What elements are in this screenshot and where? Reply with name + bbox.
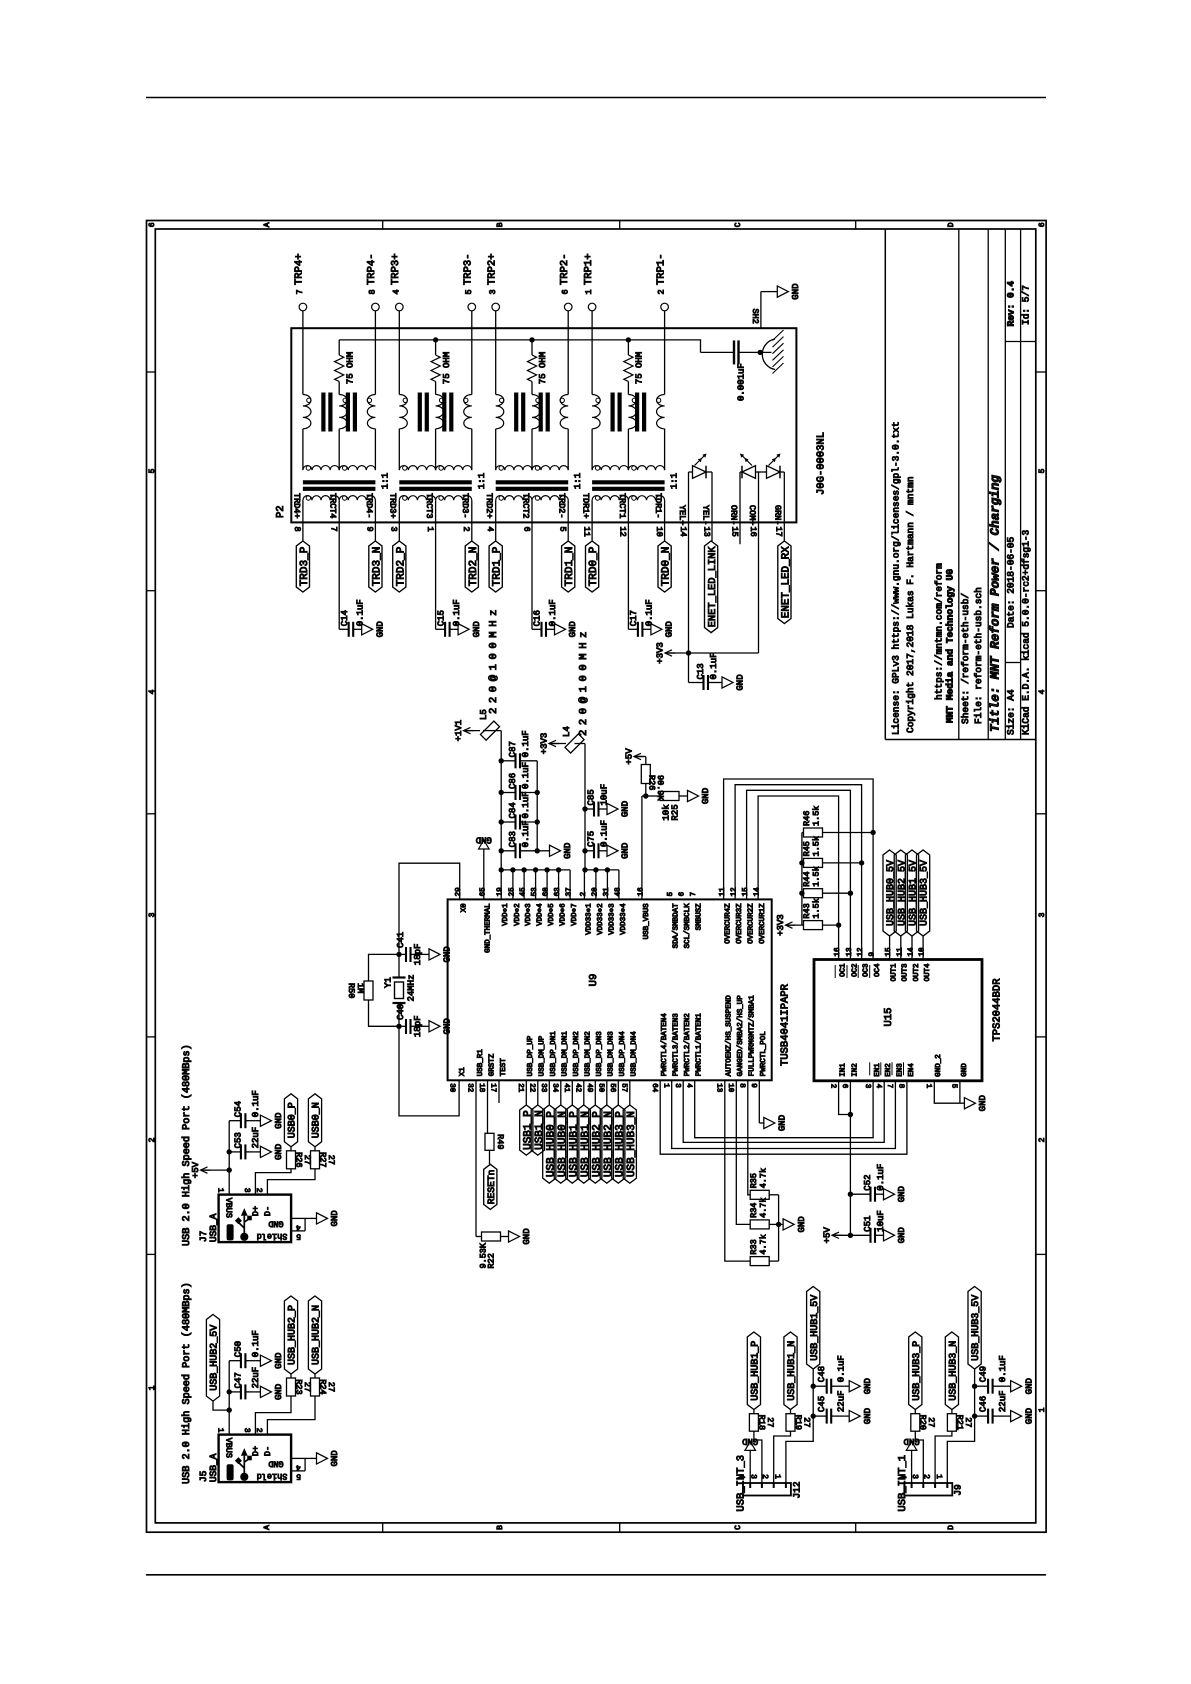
svg-text:75 OHM: 75 OHM bbox=[538, 352, 548, 384]
svg-text:GND: GND bbox=[1024, 1378, 1034, 1394]
P2 pin 16 COM+ bbox=[758, 472, 760, 541]
wire center section bbox=[495, 429, 497, 470]
svg-text:GND: GND bbox=[960, 1063, 969, 1077]
J9 pin 3 bbox=[922, 1483, 924, 1488]
junction bbox=[227, 1149, 232, 1154]
svg-text:0.1uF: 0.1uF bbox=[998, 1355, 1008, 1382]
svg-text:VDD●2: VDD●2 bbox=[513, 903, 522, 926]
svg-text:6: 6 bbox=[840, 1084, 849, 1089]
svg-text:27: 27 bbox=[926, 1417, 936, 1427]
svg-text:U15: U15 bbox=[883, 1008, 895, 1027]
resistor R27 27 bbox=[311, 1151, 320, 1169]
svg-text:4.7k: 4.7k bbox=[759, 1234, 769, 1254]
svg-text:1: 1 bbox=[924, 1084, 932, 1089]
J12 pin 1 bbox=[785, 1483, 787, 1488]
wire YEL+ / COM+ to 3V3 bbox=[688, 541, 690, 683]
ground GND (C52) bbox=[879, 1193, 884, 1195]
svg-text:R33: R33 bbox=[749, 1239, 759, 1254]
wire D- to R27 bbox=[267, 1169, 315, 1195]
svg-text:0.1uF: 0.1uF bbox=[251, 1330, 261, 1357]
svg-text:Size: A4: Size: A4 bbox=[1006, 689, 1017, 735]
svg-text:Sheet: /reform-eth-usb/: Sheet: /reform-eth-usb/ bbox=[960, 593, 971, 724]
svg-text:60: 60 bbox=[542, 887, 551, 897]
svg-text:IN1: IN1 bbox=[840, 1063, 848, 1077]
svg-text:+3V3: +3V3 bbox=[540, 733, 550, 755]
capacitor C75 bbox=[582, 848, 587, 853]
svg-text:GND: GND bbox=[568, 621, 578, 637]
wire pin2 jog bbox=[774, 1431, 791, 1483]
svg-text:VDD33●3: VDD33●3 bbox=[607, 903, 616, 935]
svg-text:C50: C50 bbox=[234, 1341, 244, 1357]
junction bbox=[870, 830, 875, 835]
wire R43-R46 common to +3V3 bbox=[801, 833, 803, 926]
svg-text:USB_HUB2_P: USB_HUB2_P bbox=[591, 1111, 603, 1177]
svg-text:GND_THERMAL: GND_THERMAL bbox=[484, 903, 493, 953]
svg-text:50: 50 bbox=[597, 1083, 606, 1093]
wire pin to label bbox=[537, 1080, 539, 1105]
svg-text:GND: GND bbox=[621, 801, 631, 817]
wire bbox=[911, 936, 913, 960]
svg-text:USB_HUB3_P: USB_HUB3_P bbox=[912, 1341, 923, 1401]
wire VDD pin bbox=[523, 870, 525, 900]
EN1-4 wires U15 to U9 PWRCTL bbox=[695, 1080, 873, 1137]
wire IN2 down bbox=[849, 1081, 851, 1236]
resistor R26 90.9K bbox=[641, 765, 650, 784]
svg-text:USB_HUB1_5V: USB_HUB1_5V bbox=[810, 1295, 821, 1361]
wire VDD33 pin bbox=[606, 870, 608, 900]
svg-text:C13: C13 bbox=[696, 663, 706, 679]
svg-text:SH2: SH2 bbox=[750, 309, 760, 324]
power +3V3 (R43) bbox=[786, 924, 796, 926]
svg-text:4.7k: 4.7k bbox=[759, 1197, 769, 1217]
svg-text:0.1uF: 0.1uF bbox=[452, 599, 462, 626]
wire pin to label bbox=[525, 1080, 527, 1105]
U9 pin17 TEST stub bbox=[498, 1080, 500, 1103]
svg-text:75 OHM: 75 OHM bbox=[345, 352, 355, 384]
ground GND (J7) bbox=[312, 1217, 317, 1219]
svg-text:USB_A: USB_A bbox=[208, 1453, 219, 1482]
svg-text:42: 42 bbox=[574, 1083, 583, 1092]
hex net label TRD0_P bbox=[586, 541, 599, 592]
svg-text:TRD1_N: TRD1_N bbox=[564, 547, 576, 587]
svg-text:MNT Media and Technology UG: MNT Media and Technology UG bbox=[945, 569, 956, 723]
svg-text:22uF: 22uF bbox=[251, 1367, 261, 1389]
svg-text:VDD33●1: VDD33●1 bbox=[584, 903, 593, 935]
svg-text:4: 4 bbox=[296, 1223, 301, 1232]
ground GND (C51) bbox=[879, 1234, 884, 1236]
J12 pin 4 bbox=[749, 1483, 751, 1488]
svg-text:4: 4 bbox=[391, 289, 401, 294]
svg-text:GND: GND bbox=[897, 1186, 907, 1202]
svg-text:4: 4 bbox=[737, 1474, 746, 1479]
svg-text:24MHz: 24MHz bbox=[407, 974, 417, 1001]
svg-text:R46: R46 bbox=[802, 811, 812, 826]
svg-text:GND: GND bbox=[863, 1408, 873, 1424]
svg-text:41: 41 bbox=[562, 1083, 570, 1093]
svg-text:USB_HUB1_P: USB_HUB1_P bbox=[568, 1111, 580, 1177]
svg-text:USB1_P: USB1_P bbox=[522, 1110, 534, 1150]
J7 pin 5 Shield bbox=[291, 1230, 305, 1232]
wire bbox=[290, 1374, 292, 1378]
ground GND (J12 pin4) bbox=[749, 1450, 751, 1454]
ground GND (R25) bbox=[683, 795, 688, 797]
wire R33-35 common gnd bbox=[778, 1195, 780, 1261]
wire U15 GND pins bbox=[934, 1081, 960, 1103]
hex net label TRD2_P bbox=[393, 541, 406, 592]
junction bbox=[643, 793, 648, 798]
svg-text:1.5k: 1.5k bbox=[812, 836, 822, 856]
hex net label USB_HUB3_5V bbox=[968, 1287, 981, 1370]
svg-text:USB_DM_DN1: USB_DM_DN1 bbox=[561, 1031, 570, 1077]
svg-text:U9: U9 bbox=[588, 974, 600, 987]
hex net label USB_HUB3_P bbox=[612, 1105, 625, 1183]
svg-text:GND: GND bbox=[522, 1228, 532, 1244]
svg-text:OC1: OC1 bbox=[839, 963, 848, 977]
capacitor C52 bbox=[850, 1193, 870, 1195]
svg-text:GND: GND bbox=[701, 788, 711, 804]
svg-text:C87: C87 bbox=[508, 741, 518, 757]
wires to bottom pins bbox=[302, 500, 304, 541]
svg-text:1:1: 1:1 bbox=[380, 473, 390, 489]
hex net label USB_HUB0_5V bbox=[883, 850, 896, 936]
svg-text:5: 5 bbox=[950, 1084, 958, 1089]
wire VDD pin bbox=[546, 870, 548, 900]
svg-text:TRP4+: TRP4+ bbox=[294, 253, 306, 285]
svg-text:1: 1 bbox=[425, 527, 435, 532]
transformer T4 line-side winding lower bbox=[303, 496, 339, 501]
svg-text:7: 7 bbox=[885, 1084, 893, 1089]
wire VDD pin bbox=[535, 870, 537, 900]
resistor R43 1.5k bbox=[804, 921, 823, 930]
resistor R20 27 bbox=[911, 1414, 920, 1432]
svg-text:Shield: Shield bbox=[257, 1471, 288, 1481]
svg-text:GND: GND bbox=[621, 843, 631, 859]
capacitor C14 on center tap bbox=[338, 541, 340, 629]
svg-text:1M: 1M bbox=[355, 983, 365, 993]
ground GND (SH2) bbox=[773, 291, 778, 293]
junction bbox=[582, 867, 587, 872]
svg-text:R45: R45 bbox=[802, 841, 812, 856]
svg-text:YEL-: YEL- bbox=[700, 505, 710, 525]
resistor R44 1.5k bbox=[804, 889, 823, 898]
wire X0 to crystal bbox=[399, 863, 460, 954]
svg-text:GND: GND bbox=[476, 835, 492, 845]
ground GND (C45) bbox=[845, 1415, 850, 1417]
svg-text:VBUS: VBUS bbox=[223, 1438, 233, 1458]
IC U9 TUSB4041IPAPR box bbox=[448, 899, 772, 1080]
svg-text:J9: J9 bbox=[953, 1484, 964, 1496]
svg-text:OVERCUR4Z: OVERCUR4Z bbox=[724, 903, 733, 944]
resistor R33 4.7k bbox=[725, 1080, 750, 1261]
svg-text:OUT2: OUT2 bbox=[912, 964, 921, 982]
junction bbox=[499, 867, 504, 872]
svg-text:25: 25 bbox=[507, 887, 516, 897]
capacitor C85 bbox=[582, 806, 587, 811]
svg-text:22uF: 22uF bbox=[251, 1127, 261, 1149]
svg-text:USB_HUB0_N: USB_HUB0_N bbox=[557, 1111, 569, 1177]
J5 pin 4 GND bbox=[291, 1457, 305, 1459]
svg-text:R49: R49 bbox=[495, 1134, 505, 1149]
wires to bottom pins bbox=[591, 500, 593, 541]
ground GND (C48) bbox=[845, 1385, 850, 1387]
capacitor 0.001uF bbox=[701, 351, 735, 353]
svg-text:IN2: IN2 bbox=[850, 1063, 859, 1077]
svg-text:GND: GND bbox=[897, 1227, 907, 1243]
svg-text:C45: C45 bbox=[817, 1396, 827, 1412]
svg-text:C16: C16 bbox=[533, 610, 543, 626]
svg-text:0.1uF: 0.1uF bbox=[600, 820, 610, 847]
svg-text:27: 27 bbox=[801, 1417, 811, 1427]
svg-text:0.001uF: 0.001uF bbox=[737, 363, 747, 401]
wire crystal to X1 bbox=[399, 1026, 459, 1116]
P2 channel 2 TRP pin 3 bbox=[492, 303, 500, 311]
capacitor C87 bbox=[501, 760, 515, 762]
svg-text:D: D bbox=[947, 1525, 956, 1530]
svg-text:18: 18 bbox=[477, 1083, 486, 1092]
svg-text:PWRCTL2/BATEN2: PWRCTL2/BATEN2 bbox=[683, 1013, 692, 1076]
svg-text:49: 49 bbox=[585, 1083, 594, 1092]
svg-text:USB_HUB2_5V: USB_HUB2_5V bbox=[210, 1325, 221, 1391]
capacitor C86 bbox=[501, 792, 515, 794]
transformer T4 line-side winding upper bbox=[303, 466, 339, 471]
ground GND (C47) bbox=[256, 1391, 261, 1393]
transformer T3 line-side winding upper bbox=[399, 466, 435, 471]
svg-text:10uF: 10uF bbox=[876, 1210, 886, 1232]
junction bbox=[529, 337, 534, 342]
junction bbox=[848, 891, 853, 896]
svg-text:GND: GND bbox=[903, 1436, 919, 1446]
svg-text:1: 1 bbox=[1038, 1407, 1047, 1412]
svg-text:J12: J12 bbox=[791, 1481, 802, 1498]
wire bbox=[753, 1410, 755, 1414]
svg-text:1:1: 1:1 bbox=[670, 473, 680, 489]
svg-text:22uF: 22uF bbox=[836, 1390, 846, 1412]
capacitor C49 0.1uF bbox=[975, 1385, 989, 1387]
svg-text:7: 7 bbox=[690, 892, 698, 897]
power +3V3 (L4) bbox=[549, 743, 559, 745]
capacitor C45 22uF bbox=[813, 1415, 827, 1417]
svg-text:53: 53 bbox=[530, 887, 539, 897]
svg-text:0.1uF: 0.1uF bbox=[548, 599, 558, 626]
svg-text:1: 1 bbox=[216, 1428, 225, 1433]
svg-text:USB_DP_DN4: USB_DP_DN4 bbox=[618, 1031, 627, 1077]
svg-text:2: 2 bbox=[1038, 1137, 1047, 1142]
wire cap rail to GND bbox=[536, 761, 538, 851]
wire USB_VBUS bbox=[641, 796, 643, 899]
svg-text:J0G-0003NL: J0G-0003NL bbox=[815, 432, 827, 495]
svg-text:10uF: 10uF bbox=[600, 784, 610, 806]
junction bbox=[535, 848, 540, 853]
border zone dividers left/right bbox=[147, 371, 156, 373]
hex net label USB_HUB3_N bbox=[945, 1332, 958, 1410]
VDD33 bus wire bbox=[585, 869, 619, 871]
ground GND (C40) bbox=[425, 1025, 430, 1027]
svg-text:TRCT4: TRCT4 bbox=[328, 493, 338, 519]
ferrite bead L5 bbox=[464, 730, 481, 732]
svg-text:17: 17 bbox=[489, 1083, 497, 1092]
svg-text:USB_DP_DN2: USB_DP_DN2 bbox=[572, 1031, 581, 1076]
svg-text:C84: C84 bbox=[508, 802, 518, 818]
transformer T4 core bars horizontal bbox=[303, 480, 376, 484]
wire D+ to R26 bbox=[255, 1169, 291, 1195]
svg-text:C53: C53 bbox=[234, 1132, 244, 1148]
capacitor C84 bbox=[501, 821, 515, 823]
svg-text:TRP4-: TRP4- bbox=[366, 253, 378, 285]
connector J12 box bbox=[743, 1483, 791, 1496]
J9 pin 2 bbox=[934, 1483, 936, 1488]
svg-text:R23: R23 bbox=[293, 1379, 303, 1394]
svg-text:22uF: 22uF bbox=[998, 1390, 1008, 1412]
svg-text:USB_DM_DN4: USB_DM_DN4 bbox=[630, 1031, 639, 1077]
svg-text:3: 3 bbox=[242, 1188, 251, 1193]
wire bbox=[823, 924, 839, 926]
75 OHM resistor ch3 bbox=[435, 340, 437, 355]
wire pin to label bbox=[594, 1080, 596, 1105]
junction bbox=[535, 819, 540, 824]
transformer T3 core bars bbox=[418, 393, 422, 432]
hex net label TRD1_P bbox=[489, 541, 502, 592]
svg-text:GND: GND bbox=[330, 1450, 340, 1466]
svg-text:GND: GND bbox=[443, 946, 453, 962]
svg-text:64: 64 bbox=[650, 1083, 659, 1093]
svg-text:R22: R22 bbox=[487, 1253, 497, 1268]
title block outline bbox=[884, 229, 886, 740]
svg-text:TUSB4041IPAPR: TUSB4041IPAPR bbox=[779, 983, 791, 1066]
svg-text:Rev: 0.4: Rev: 0.4 bbox=[1006, 281, 1017, 327]
capacitor C16 on center tap bbox=[531, 541, 533, 629]
svg-text:3: 3 bbox=[488, 289, 498, 294]
ground GND_THERMAL bbox=[483, 853, 485, 899]
svg-text:D-: D- bbox=[263, 1206, 273, 1216]
wire bbox=[914, 1410, 916, 1414]
hex net label USB_HUB3_N bbox=[623, 1105, 636, 1183]
svg-text:5: 5 bbox=[148, 468, 157, 473]
svg-text:C: C bbox=[734, 222, 743, 227]
svg-text:1:1: 1:1 bbox=[573, 473, 583, 489]
svg-text:+5V: +5V bbox=[823, 1227, 833, 1244]
ground GND (C49) bbox=[1006, 1385, 1011, 1387]
svg-text:+3V3: +3V3 bbox=[776, 914, 786, 936]
svg-text:TRD3_N: TRD3_N bbox=[371, 547, 383, 587]
svg-text:10: 10 bbox=[918, 947, 927, 957]
junction bbox=[776, 1222, 781, 1227]
chassis ground symbol bbox=[760, 351, 771, 353]
svg-text:R34: R34 bbox=[749, 1203, 759, 1218]
hex net label TRD2_N bbox=[465, 541, 478, 592]
J7 pin 4 GND bbox=[291, 1217, 305, 1219]
svg-text:USB1_N: USB1_N bbox=[534, 1110, 546, 1150]
transformer T1 device-side windings bbox=[592, 395, 600, 429]
svg-text:USB_VBUS: USB_VBUS bbox=[642, 903, 651, 940]
svg-text:OVERCUR2Z: OVERCUR2Z bbox=[747, 903, 756, 944]
svg-text:4.7k: 4.7k bbox=[759, 1168, 769, 1188]
wire shield join bbox=[304, 1218, 306, 1231]
P2 channel 3 TRP pin 5 bbox=[468, 303, 476, 311]
svg-text:GND: GND bbox=[742, 1436, 758, 1446]
svg-text:GND: GND bbox=[797, 1216, 807, 1232]
svg-text:+1V1: +1V1 bbox=[454, 720, 464, 742]
wire bbox=[790, 1410, 792, 1414]
wire pin1 to 5V rail bbox=[786, 1369, 813, 1483]
svg-text:TRD1_P: TRD1_P bbox=[492, 546, 504, 586]
svg-text:27: 27 bbox=[326, 1382, 336, 1392]
junction bbox=[396, 952, 401, 957]
svg-text:VDD●5: VDD●5 bbox=[548, 903, 556, 926]
svg-text:6: 6 bbox=[677, 891, 686, 896]
svg-text:ENET_LED_LINK: ENET_LED_LINK bbox=[707, 546, 719, 628]
svg-text:VDD●4: VDD●4 bbox=[537, 903, 545, 926]
junction bbox=[535, 790, 540, 795]
junction bbox=[972, 1384, 977, 1389]
wire PWRCTL_POL to GND bbox=[758, 1080, 760, 1123]
junction bbox=[972, 1413, 977, 1418]
hex net label USB_HUB2_5V bbox=[206, 1315, 219, 1402]
svg-text:29: 29 bbox=[454, 887, 463, 896]
svg-text:9: 9 bbox=[749, 1083, 758, 1088]
svg-text:13: 13 bbox=[701, 527, 711, 537]
svg-text:TRD2_N: TRD2_N bbox=[468, 547, 480, 587]
svg-text:13: 13 bbox=[715, 1083, 724, 1093]
svg-text:USB_DM_DN3: USB_DM_DN3 bbox=[607, 1031, 616, 1077]
svg-text:0.1uF: 0.1uF bbox=[876, 1164, 886, 1191]
svg-text:C52: C52 bbox=[863, 1174, 873, 1190]
hex net label USB0_P bbox=[284, 1094, 297, 1147]
svg-text:OC3: OC3 bbox=[862, 963, 871, 977]
resistor R35 4.7k bbox=[748, 1080, 750, 1195]
ground GND (J5) bbox=[312, 1457, 317, 1459]
svg-text:GND: GND bbox=[563, 843, 573, 859]
svg-text:USB_HUB3_5V: USB_HUB3_5V bbox=[971, 1295, 982, 1361]
junction bbox=[521, 867, 526, 872]
wire bbox=[706, 471, 712, 473]
svg-text:TRD3_P: TRD3_P bbox=[299, 546, 311, 586]
resistor R45 1.5k bbox=[804, 858, 823, 867]
svg-text:USB_HUB2_N: USB_HUB2_N bbox=[312, 1305, 323, 1365]
svg-text:OUT1: OUT1 bbox=[890, 963, 899, 982]
wire VDD pin bbox=[569, 870, 571, 900]
ground GND (J9 pin4) bbox=[911, 1450, 913, 1454]
wire bbox=[922, 936, 924, 960]
svg-text:32: 32 bbox=[466, 1083, 475, 1092]
capacitor C46 22uF bbox=[975, 1415, 989, 1417]
svg-text:C49: C49 bbox=[978, 1366, 988, 1382]
svg-text:R24: R24 bbox=[317, 1379, 327, 1394]
transformer T2 line-side winding lower bbox=[496, 496, 532, 501]
svg-text:VBUS: VBUS bbox=[223, 1198, 233, 1218]
svg-text:USB_INT_1: USB_INT_1 bbox=[897, 1455, 909, 1512]
junction bbox=[227, 1407, 232, 1412]
svg-text:0.1uF: 0.1uF bbox=[836, 1355, 846, 1382]
svg-text:USB0_N: USB0_N bbox=[312, 1102, 323, 1138]
junction C52 bbox=[848, 1192, 853, 1197]
sheet inner border frame bbox=[155, 229, 1036, 1523]
svg-text:TRCT1: TRCT1 bbox=[617, 493, 627, 519]
svg-text:GND: GND bbox=[778, 1115, 788, 1131]
svg-text:B: B bbox=[496, 1525, 505, 1530]
svg-text:GND: GND bbox=[375, 621, 385, 637]
ground GND (R34) bbox=[779, 1223, 784, 1225]
wire bbox=[823, 832, 874, 834]
wire SH2 to GND bbox=[761, 291, 773, 293]
svg-text:USB_HUB1_N: USB_HUB1_N bbox=[787, 1341, 798, 1401]
svg-text:USB_HUB0_5V: USB_HUB0_5V bbox=[886, 860, 897, 926]
svg-text:C75: C75 bbox=[587, 831, 597, 847]
svg-text:GND: GND bbox=[274, 1353, 284, 1369]
svg-text:C83: C83 bbox=[508, 831, 518, 847]
svg-text:KiCad E.D.A. kicad 5.0.0-rc2+: KiCad E.D.A. kicad 5.0.0-rc2+dfsg1-3 bbox=[1020, 529, 1031, 735]
svg-text:P2: P2 bbox=[275, 505, 287, 518]
svg-text:0.1uF: 0.1uF bbox=[521, 820, 531, 847]
